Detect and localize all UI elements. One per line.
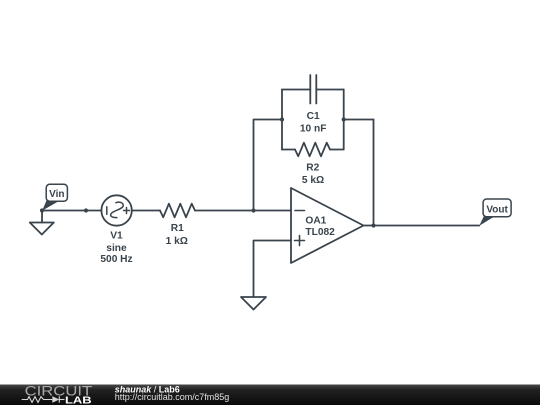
footer bar — [0, 384, 540, 405]
capacitor C1 — [309, 75, 311, 104]
node junction feedback left — [280, 117, 284, 121]
svg-text:http://circuitlab.com/c7fm85g: http://circuitlab.com/c7fm85g — [115, 392, 230, 402]
flag tail Vout — [479, 216, 494, 226]
wire branch right vertical — [343, 90, 345, 150]
svg-text:C1: C1 — [307, 111, 320, 122]
net flag Vout — [483, 199, 511, 217]
wire Vin node to V1 — [42, 210, 102, 212]
node junction input wire — [84, 208, 88, 212]
resistor R2 — [295, 143, 330, 157]
svg-text:V1: V1 — [110, 230, 123, 241]
flag tail Vin — [42, 200, 59, 210]
node junction Vin — [40, 208, 44, 212]
resistor R1 — [160, 204, 195, 218]
wire capacitor branch top — [282, 89, 310, 91]
wire R1 to op-amp inverting input — [195, 210, 291, 212]
voltage source V1 — [101, 195, 131, 225]
svg-text:R2: R2 — [306, 163, 319, 174]
svg-text:OA1: OA1 — [305, 216, 326, 227]
wire V1 to R1 — [132, 210, 160, 212]
wire feedback left vertical — [254, 120, 283, 211]
svg-text:500 Hz: 500 Hz — [100, 254, 132, 265]
svg-text:10 nF: 10 nF — [300, 123, 327, 134]
wire R2 branch left lead — [282, 149, 295, 151]
wire R2 branch right lead — [330, 149, 344, 151]
svg-text:Vout: Vout — [486, 204, 508, 215]
wire feedback right vertical — [373, 120, 375, 226]
logo resistor-diode line — [22, 396, 65, 402]
svg-text:5 kΩ: 5 kΩ — [302, 175, 324, 186]
node junction feedback right — [342, 117, 346, 121]
ground GND1 at input — [30, 223, 54, 235]
node junction inverting input — [251, 208, 255, 212]
net flag Vin — [46, 184, 67, 201]
svg-text:Vin: Vin — [49, 189, 64, 200]
op-amp OA1 — [291, 188, 364, 263]
svg-text:LAB: LAB — [65, 395, 92, 405]
node junction output — [371, 223, 375, 227]
wire branch left vertical — [281, 90, 283, 150]
svg-text:R1: R1 — [171, 223, 184, 234]
logo diode — [52, 396, 59, 402]
wire feedback right tap — [344, 119, 374, 121]
wire op-amp output — [364, 225, 480, 227]
ground GND2 under op-amp — [241, 297, 266, 310]
wire op-amp non-inverting input — [254, 241, 292, 298]
wire Vin node down — [41, 211, 43, 223]
wire capacitor to right vertical — [316, 89, 343, 91]
svg-text:1 kΩ: 1 kΩ — [166, 236, 188, 247]
svg-text:TL082: TL082 — [305, 227, 335, 238]
svg-text:sine: sine — [106, 243, 127, 254]
